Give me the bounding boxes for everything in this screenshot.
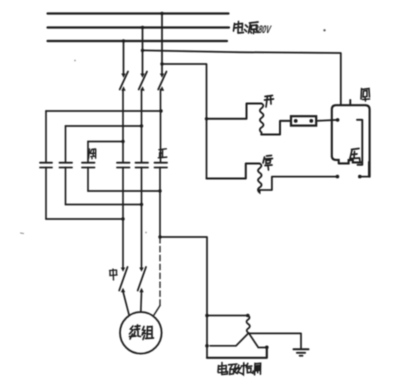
组 [142,327,154,340]
绕 [130,325,141,339]
power line L3 [48,40,228,42]
label 甲 (switch label) [110,269,118,280]
node V3/L1 [160,12,163,15]
knife switch QS2 pole 1 [119,267,127,292]
电 [234,22,244,34]
wire motor lead 1 [123,292,129,316]
control row 2: wire to stop button [207,164,260,179]
wire brake feed from V3 [160,237,207,358]
源 [245,22,259,34]
speck [145,232,147,234]
wire motor lead 2 [140,292,143,313]
电 [218,363,228,375]
wire V3 mid [160,90,162,163]
wire V1 lower [122,167,124,268]
wire H4 (bottom tie col3-V3) [88,190,160,192]
contact KM-R pole2 (col2) [60,163,73,168]
contact KM-F pole3 (V3) [155,163,168,168]
wire H6 (bottom tie col1-V1) [46,218,123,220]
label 压 (inside box) [350,149,361,162]
label 正 (forward contactor) [158,149,167,158]
wire coil to ground [249,333,301,348]
svg-text:380V: 380V [254,24,273,36]
label 电磁抱闸 [218,363,261,375]
wire stop row to interlock [260,177,338,190]
wire bottom-right contact up [360,162,369,177]
node V2/L2 [141,26,144,29]
contact KM-F pole1 (V1) [117,163,130,168]
speck [323,29,325,31]
wire V2 drop from L2 [142,28,144,75]
闸 [255,363,261,375]
knife switch QS1 pole 1 [120,72,128,91]
label 绕组 [130,325,154,340]
wire fuse to interlock box [316,120,337,121]
motor M (winding) [120,312,162,354]
wire branch A (control phase from V2) [143,50,341,105]
power line L2 [48,26,230,28]
coil 开 (start) [260,104,264,135]
抱 [241,363,253,375]
speck [21,232,24,235]
brake base [207,348,267,358]
wire H2 (col2 top cross-tie) [66,125,142,127]
label 闸 (box) [361,89,370,102]
wire col3 [87,142,89,192]
wire H5 (bottom tie col2-V2) [66,204,142,206]
power line L1 [48,12,229,14]
磁 [229,364,241,374]
wire col1 [45,111,47,219]
stub on box top [349,100,351,105]
knife switch QS1 pole 2 [139,72,147,91]
label 停 [263,156,273,171]
knife switch QS1 pole 3 [158,72,166,91]
brake feed wire [207,315,248,317]
contact KM-R pole1 (col1) [40,163,52,168]
speck [74,60,76,62]
wire V3 lower [159,167,161,237]
node V1/L3 [122,39,125,42]
wire V1 mid [122,90,124,163]
contact terminal dots [336,118,340,122]
wire start row to fuse [261,121,291,135]
contact KM-R pole3 (col3) [82,163,95,168]
brake armature lever [210,333,249,346]
interlock armature bar [357,120,362,165]
wire H3 (col3 top cross-tie) [88,141,123,143]
node branch B on V3 [160,62,163,65]
node branch A on V2 [141,49,144,52]
wire branch B (control phase from V3) [162,64,207,179]
label 电源380V [234,22,259,34]
interlock box (contactor) [332,105,370,177]
coil 停 (stop) [258,164,262,193]
control row 1: wire to start button [207,104,262,119]
wire col2 [65,126,67,205]
wire V1 drop from L3 [123,41,125,75]
wire V2 mid [141,90,143,163]
brake coil (solenoid) [247,316,250,334]
wire H1 (col1 top cross-tie) [46,110,161,112]
contact KM-F pole2 (V2) [136,163,149,168]
label 倒 (reverse contactor) [89,149,96,159]
wire V3 drop from L1 [161,14,163,75]
ground symbol [294,348,309,350]
label 开 [265,96,274,108]
fuse FU [291,116,316,125]
knife switch QS2 pole 2 [138,267,146,292]
wire V2 lower [141,167,143,268]
